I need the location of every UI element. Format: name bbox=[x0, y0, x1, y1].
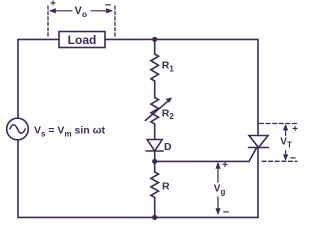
svg-text:Vs = Vm sin ωt: Vs = Vm sin ωt bbox=[34, 125, 105, 139]
wire node to R bbox=[154, 161, 156, 172]
node junction top bbox=[152, 37, 157, 42]
thyristor SCR bbox=[249, 136, 268, 148]
VT dashed line bottom bbox=[262, 160, 297, 162]
resistor R1 bbox=[151, 54, 159, 81]
wire R2 to D bbox=[154, 124, 156, 140]
wire D to node bbox=[154, 151, 156, 161]
wire left vertical upper bbox=[17, 39, 19, 118]
svg-text:−: − bbox=[105, 0, 111, 12]
potentiometer R2 arrow bbox=[145, 101, 168, 121]
Vo arrow right bbox=[91, 10, 109, 12]
svg-text:D: D bbox=[164, 141, 172, 153]
load box bbox=[59, 32, 105, 48]
svg-text:Vg: Vg bbox=[214, 184, 226, 197]
Vo arrow left bbox=[53, 10, 72, 12]
wire bottom bbox=[18, 216, 258, 218]
svg-text:+: + bbox=[50, 0, 56, 10]
gate wire diagonal bbox=[249, 148, 256, 161]
wire right vertical lower bbox=[257, 148, 259, 218]
wire left vertical lower bbox=[17, 140, 19, 218]
wire right vertical upper bbox=[257, 39, 259, 135]
svg-text:Vo: Vo bbox=[75, 5, 88, 19]
wire top-right segment bbox=[105, 38, 258, 40]
Vo dashed line left bbox=[47, 6, 49, 36]
svg-text:−: − bbox=[290, 153, 296, 165]
diode D bbox=[147, 140, 162, 152]
wire R1 to R2 bbox=[154, 81, 156, 98]
svg-text:Load: Load bbox=[68, 33, 97, 47]
VT arrow bbox=[285, 127, 287, 136]
potentiometer R2 bbox=[151, 98, 159, 124]
svg-text:R: R bbox=[162, 181, 170, 193]
ac source bbox=[7, 118, 29, 140]
svg-text:+: + bbox=[222, 160, 228, 171]
svg-text:−: − bbox=[223, 206, 229, 218]
svg-text:+: + bbox=[292, 124, 298, 135]
wire top-left segment bbox=[18, 38, 59, 40]
node bottom junction bbox=[152, 215, 157, 220]
node gate junction bbox=[152, 159, 157, 164]
wire R to bottom bbox=[154, 198, 156, 218]
gate wire horizontal bbox=[155, 160, 249, 162]
svg-text:R1: R1 bbox=[162, 60, 175, 74]
resistor R bbox=[151, 172, 159, 197]
svg-text:VT: VT bbox=[280, 136, 292, 149]
VT dashed line top bbox=[260, 123, 298, 125]
Vo dashed line right bbox=[114, 6, 116, 37]
svg-text:R2: R2 bbox=[162, 108, 175, 122]
wire middle branch top bbox=[154, 39, 156, 54]
Vg arrow bbox=[217, 167, 219, 182]
